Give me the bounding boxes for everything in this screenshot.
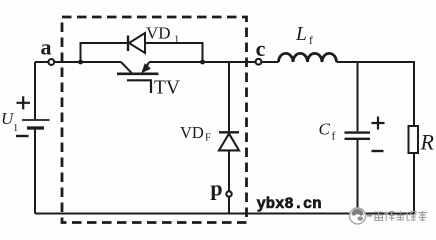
battery plus sign <box>17 96 31 109</box>
transistor TV gate electrode <box>127 80 152 93</box>
diode VD1 cathode bar <box>127 36 129 52</box>
watermark chinese text 硬件笔记本 <box>374 211 427 221</box>
resistor R box <box>409 126 419 153</box>
junction dot left <box>78 60 83 65</box>
wire VDF branch upper <box>228 62 230 132</box>
wire inductor to right corner down to R <box>337 62 415 126</box>
svg-text:a: a <box>41 35 52 60</box>
wire R bottom to bottom rail <box>413 153 415 214</box>
node a circle <box>48 59 54 65</box>
svg-text:c: c <box>256 36 266 61</box>
svg-text:p: p <box>210 176 222 201</box>
diode VD1 triangle <box>129 33 145 53</box>
svg-text:f: f <box>309 35 313 47</box>
capacitor plus sign <box>372 117 385 130</box>
diode VDF cathode bar <box>219 131 239 133</box>
svg-text:VD: VD <box>180 123 204 142</box>
svg-text:1: 1 <box>174 35 179 46</box>
capacitor Cf bottom plate <box>345 138 371 140</box>
wire top-left from corner to transistor <box>35 61 121 63</box>
svg-text:1: 1 <box>13 123 18 134</box>
wire diode branch <box>81 43 203 62</box>
svg-text:f: f <box>332 131 336 143</box>
wire left rail upper <box>34 62 36 119</box>
svg-text:TV: TV <box>154 78 180 99</box>
dashed box <box>62 17 247 223</box>
transistor TV emitter diagonal <box>144 62 149 70</box>
svg-text:F: F <box>205 133 211 144</box>
capacitor minus sign <box>372 150 384 152</box>
diode VDF triangle <box>219 134 239 151</box>
transistor TV emitter arrowhead <box>141 63 151 73</box>
wire left rail lower <box>34 129 36 214</box>
transistor TV body bar <box>117 73 159 76</box>
svg-text:VD: VD <box>146 24 171 43</box>
junction dot right <box>200 60 205 65</box>
capacitor Cf top plate <box>345 131 371 133</box>
inductor Lf <box>279 53 337 62</box>
battery U1 plates <box>22 119 50 121</box>
svg-text:C: C <box>319 120 331 139</box>
wire transistor to node c to inductor <box>149 61 279 63</box>
node p circle <box>226 191 231 196</box>
wire Cf branch upper <box>357 62 359 131</box>
node c circle <box>256 59 262 65</box>
wire bottom rail <box>35 213 414 215</box>
wire VDF branch lower through node p <box>228 150 230 213</box>
svg-text:ybx8.cn: ybx8.cn <box>257 195 322 213</box>
svg-text:L: L <box>295 24 307 45</box>
wire Cf branch lower <box>357 140 359 214</box>
svg-text:R: R <box>420 130 435 155</box>
watermark logo circle <box>350 208 373 224</box>
battery minus sign <box>16 135 29 137</box>
transistor TV collector diagonal <box>121 62 132 73</box>
